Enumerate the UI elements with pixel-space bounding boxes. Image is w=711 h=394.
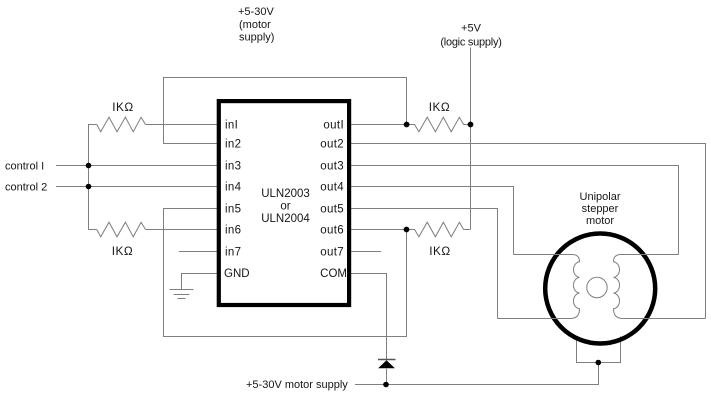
svg-text:out5: out5 — [320, 204, 344, 216]
wire R1 left lead down to R3 — [89, 125, 97, 230]
wire out3 to motor right coil top — [351, 166, 679, 255]
svg-text:out6: out6 — [320, 225, 344, 237]
svg-text:in4: in4 — [225, 182, 242, 194]
svg-text:IKΩ: IKΩ — [112, 100, 133, 114]
resistor R2 1K out1 to +5V — [407, 117, 471, 132]
svg-text:in5: in5 — [225, 204, 241, 216]
svg-text:supply): supply) — [239, 32, 274, 44]
svg-text:control 2: control 2 — [5, 182, 47, 194]
inductor coil A left winding — [498, 255, 580, 319]
node motor tap junction — [596, 360, 602, 366]
diode D1 body — [378, 360, 395, 368]
svg-text:+5-30V motor supply: +5-30V motor supply — [246, 379, 348, 391]
wire out6 stub — [351, 229, 407, 231]
svg-text:+5V: +5V — [461, 23, 482, 35]
wire bottom motor supply rail — [355, 363, 599, 385]
wire in1 from R1 — [146, 124, 218, 126]
wire out4 to motor left coil top — [351, 187, 514, 255]
svg-text:motor: motor — [586, 215, 614, 227]
svg-text:stepper: stepper — [582, 203, 619, 215]
resistor R3 1K — [97, 222, 146, 237]
wire in5 loop to out6 node — [164, 209, 407, 337]
wire motor center tap — [577, 337, 621, 363]
node out1 junction — [404, 122, 410, 128]
node control2 junction — [86, 184, 92, 190]
svg-text:out2: out2 — [320, 139, 344, 151]
svg-text:out7: out7 — [320, 247, 344, 259]
resistor R1 1K — [97, 117, 146, 132]
svg-text:out3: out3 — [320, 161, 344, 173]
svg-text:in3: in3 — [225, 161, 241, 173]
svg-text:in2: in2 — [225, 139, 241, 151]
svg-text:COM: COM — [320, 268, 347, 280]
node +5V/R2 junction — [468, 122, 474, 128]
wire out7 stub — [351, 251, 381, 253]
svg-text:inI: inI — [225, 120, 238, 132]
wire control 1 to in3 — [56, 165, 218, 167]
diode D1 cathode bar — [378, 359, 396, 361]
op IC U1 ULN2003 body — [219, 101, 349, 305]
svg-text:Unipolar: Unipolar — [580, 191, 621, 203]
wire +5V vertical — [470, 48, 472, 230]
node diode/rail junction — [383, 382, 389, 388]
svg-text:in7: in7 — [225, 247, 241, 259]
svg-text:ULN2004: ULN2004 — [261, 213, 310, 225]
svg-text:IKΩ: IKΩ — [112, 244, 133, 258]
motor M1 unipolar stepper body — [545, 234, 655, 344]
wire out2 to motor right coil bottom — [351, 144, 706, 319]
svg-text:ULN2003: ULN2003 — [261, 188, 310, 200]
svg-text:+5-30V: +5-30V — [238, 6, 274, 18]
svg-text:outI: outI — [323, 120, 344, 132]
wire out5 to motor left coil bottom — [351, 209, 498, 319]
motor rotor — [587, 277, 607, 297]
node out6 junction — [404, 227, 410, 233]
svg-text:or: or — [280, 201, 290, 213]
wire COM to diode — [351, 274, 387, 360]
svg-text:GND: GND — [224, 268, 250, 280]
wire in2 feedback rail to out1 node — [164, 78, 407, 144]
svg-text:control I: control I — [5, 161, 44, 173]
ground — [170, 290, 194, 299]
wire out1 stub — [351, 124, 407, 126]
svg-text:(motor: (motor — [239, 19, 271, 31]
resistor R4 1K out6 to +5V — [407, 222, 471, 237]
inductor coil B right winding — [614, 255, 706, 319]
wire in7 stub — [179, 251, 218, 253]
svg-text:IKΩ: IKΩ — [429, 100, 450, 114]
svg-text:out4: out4 — [320, 182, 344, 194]
node control1/R1 junction — [86, 163, 92, 169]
wire control 2 to in4 — [56, 186, 218, 188]
wire diode anode to rail — [386, 369, 388, 385]
svg-text:(logic supply): (logic supply) — [440, 36, 501, 48]
svg-text:IKΩ: IKΩ — [429, 244, 450, 258]
wire GND to ground — [182, 274, 218, 290]
wire R3 to in6 — [146, 229, 218, 231]
svg-text:in6: in6 — [225, 225, 241, 237]
